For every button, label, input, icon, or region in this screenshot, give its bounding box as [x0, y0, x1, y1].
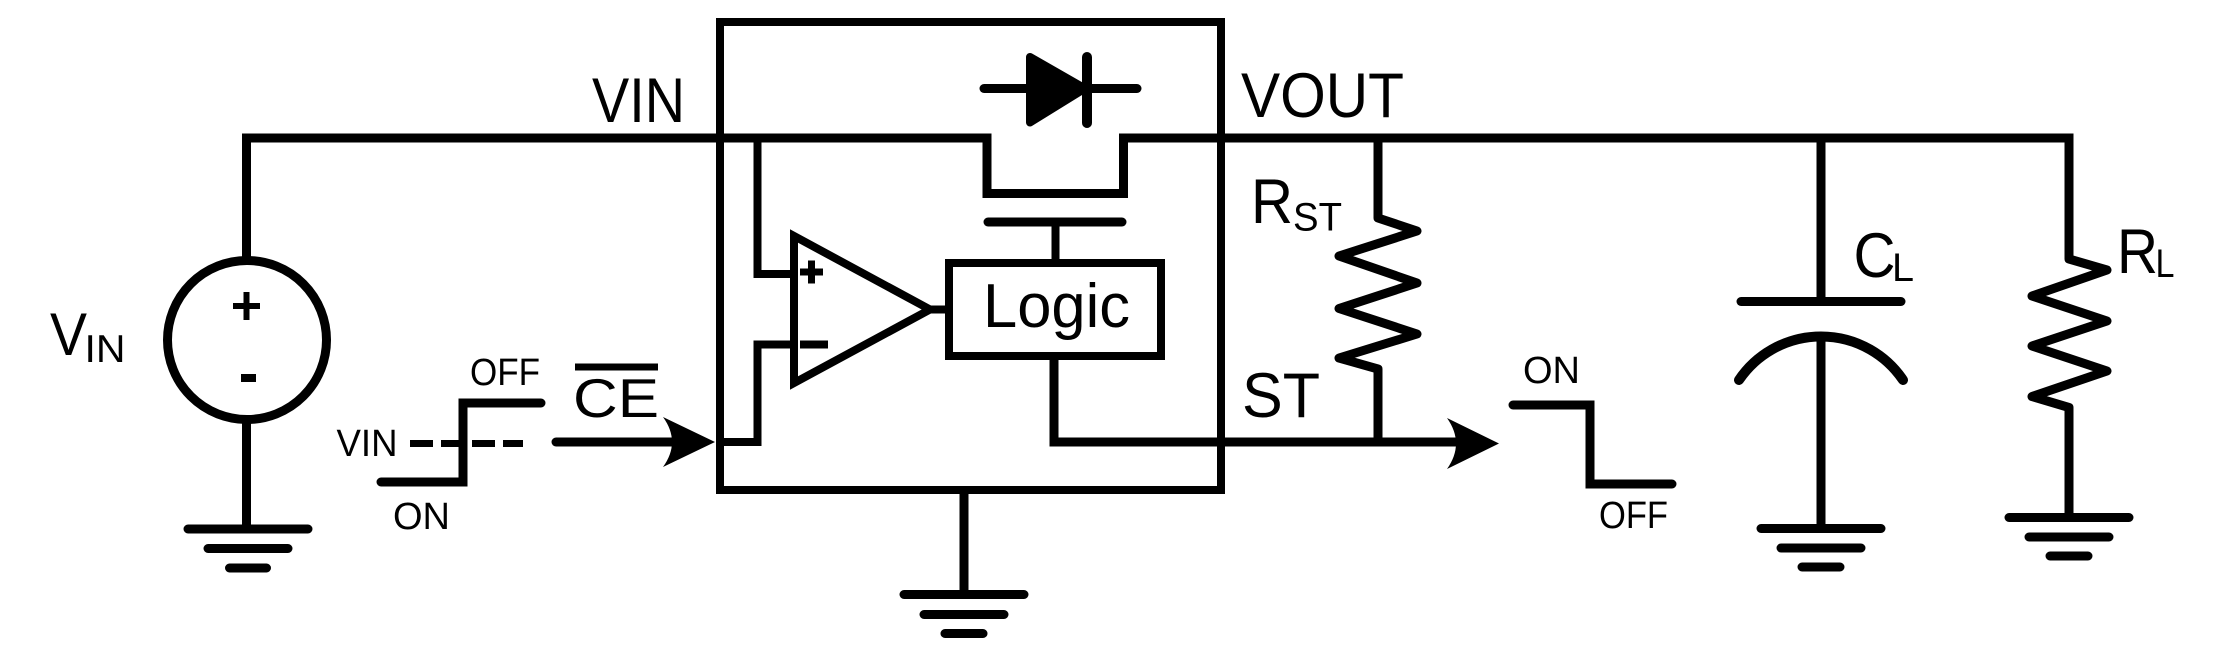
IC U1 box [720, 22, 1221, 490]
MOSFET gate bar [988, 218, 1122, 227]
capacitor CL top plate [1741, 297, 1901, 306]
voltage source V1 [168, 261, 327, 420]
op-amp plus input marker [800, 261, 823, 284]
CE waveform dashed threshold [410, 440, 523, 447]
CE waveform label VIN [337, 423, 398, 465]
label VIN source [50, 301, 126, 371]
node VIN label [592, 66, 685, 136]
svg-text:OFF: OFF [470, 352, 540, 394]
ground RL [2009, 518, 2129, 557]
svg-text:R: R [1251, 167, 1293, 237]
ground IC [904, 595, 1024, 634]
op-amp minus input marker [800, 341, 828, 349]
wire CE to comparator - input [724, 345, 798, 443]
wire op-amp output to logic [928, 306, 953, 314]
ST waveform label ON [1523, 350, 1580, 392]
svg-text:VIN: VIN [592, 66, 685, 136]
svg-text:ON: ON [393, 496, 450, 538]
svg-text:V: V [50, 301, 87, 368]
diode cathode bar [1082, 57, 1092, 123]
op-amp U2 comparator [794, 236, 930, 383]
svg-text:IN: IN [85, 328, 126, 371]
wire VIN rail [242, 134, 987, 143]
CE waveform label ON [393, 496, 450, 538]
ST output waveform [1513, 405, 1672, 484]
diode triangle [1030, 57, 1085, 123]
plus sign of source [233, 292, 260, 320]
svg-text:R: R [2117, 217, 2158, 287]
svg-text:L: L [2156, 242, 2175, 286]
svg-text:C: C [1854, 221, 1896, 291]
CE input waveform [381, 403, 541, 482]
resistor RL [2032, 142, 2107, 517]
ground CL [1761, 529, 1881, 568]
arrowhead ST [1447, 418, 1499, 469]
label CL [1854, 221, 1915, 291]
svg-text:ST: ST [1242, 361, 1320, 431]
MOSFET gate lead [1052, 222, 1060, 263]
ST waveform label OFF [1599, 495, 1668, 537]
CE waveform label OFF [470, 352, 540, 394]
wire IC ground stem [960, 490, 969, 594]
svg-text:CE: CE [573, 367, 659, 429]
wire source bottom to ground [242, 420, 251, 529]
resistor RST [1339, 138, 1417, 442]
capacitor CL bottom lead [1817, 336, 1826, 529]
svg-text:ST: ST [1293, 196, 1342, 240]
capacitor CL top lead [1817, 138, 1826, 302]
wire VOUT rail [1124, 134, 2074, 143]
arrowhead CE [663, 417, 715, 467]
svg-text:Logic: Logic [983, 272, 1130, 341]
svg-text:VIN: VIN [337, 423, 398, 465]
node ST label [1242, 361, 1320, 431]
svg-text:L: L [1892, 246, 1914, 290]
label CE with overline [573, 367, 659, 429]
wire VIN to comparator + input [758, 138, 799, 274]
label RST [1251, 167, 1342, 240]
node VOUT label [1241, 61, 1404, 131]
svg-text:ON: ON [1523, 350, 1580, 392]
logic block [949, 263, 1161, 356]
wire CE input [556, 438, 676, 447]
capacitor CL curved plate [1739, 336, 1903, 380]
MOSFET Q1 channel [987, 134, 1124, 194]
wire source top to VIN rail [242, 138, 251, 260]
label RL [2117, 217, 2175, 287]
minus sign of source [241, 374, 256, 382]
wire logic to ST [1054, 356, 1459, 442]
ground source [188, 529, 308, 568]
svg-text:VOUT: VOUT [1241, 61, 1404, 131]
svg-text:OFF: OFF [1599, 495, 1668, 537]
body diode D1 [984, 84, 1137, 93]
